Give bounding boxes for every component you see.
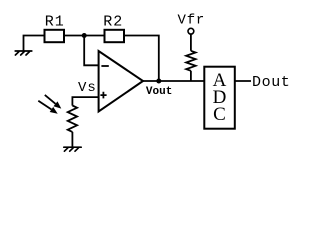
svg-text:C: C [213, 104, 226, 125]
svg-text:R2: R2 [103, 14, 123, 31]
svg-text:Vout: Vout [146, 86, 172, 98]
svg-text:Dout: Dout [252, 74, 290, 91]
svg-text:Vs: Vs [78, 80, 97, 96]
svg-text:Vfr: Vfr [178, 13, 206, 29]
svg-text:R1: R1 [45, 14, 65, 31]
